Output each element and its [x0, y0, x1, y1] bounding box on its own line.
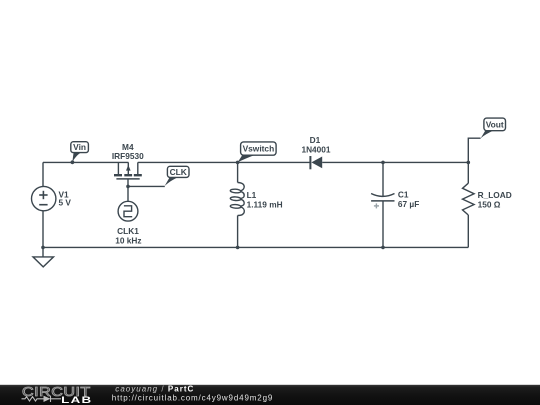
svg-text:D1: D1: [310, 135, 321, 145]
svg-text:caoyuang / PartC: caoyuang / PartC: [115, 384, 194, 393]
label L1 designator and value: [247, 190, 283, 210]
svg-text:L1: L1: [247, 190, 257, 200]
svg-text:5 V: 5 V: [59, 198, 72, 208]
junction L1 bottom: [236, 246, 240, 250]
wire L1 bottom lead: [237, 216, 239, 248]
svg-text:IRF9530: IRF9530: [112, 151, 144, 161]
svg-text:10 kHz: 10 kHz: [115, 236, 141, 246]
wire V1 top lead: [42, 162, 44, 186]
diode D1: [310, 156, 322, 169]
capacitor C1 (polarized): [371, 194, 394, 201]
node flag CLK: [165, 166, 189, 186]
label R_LOAD designator and value: [478, 190, 512, 209]
wire top-right (diode anode to R_LOAD top): [322, 161, 468, 163]
voltage source V1: [32, 186, 56, 210]
label M4 designator and value: [112, 142, 144, 161]
junction Vout node: [467, 161, 471, 165]
node flag Vout: [481, 118, 506, 138]
ground: [33, 247, 54, 267]
label C1 designator and value: [398, 190, 419, 210]
junction Vswitch node: [236, 161, 240, 165]
schematic strokes group: [43, 138, 481, 247]
wire CLK1 top lead: [127, 186, 129, 201]
wire L1 top lead: [237, 162, 239, 182]
svg-text:C1: C1: [398, 190, 409, 200]
svg-text:150 Ω: 150 Ω: [478, 199, 501, 209]
wire V1 bottom lead: [42, 211, 44, 248]
wire R_LOAD top lead: [467, 162, 469, 183]
label D1 designator and value: [301, 135, 330, 155]
svg-text:LAB: LAB: [61, 396, 92, 405]
wire top-middle (M4 source to diode cathode): [138, 161, 311, 163]
transistor M4 (PMOS IRF9530): [114, 162, 142, 186]
label CLK1 designator and value: [115, 226, 141, 246]
wire top-left (Vin rail from V1 to M4 drain): [43, 161, 128, 163]
label V1 value: [59, 190, 72, 208]
svg-text:1N4001: 1N4001: [301, 145, 330, 155]
clock source CLK1: [118, 201, 138, 221]
wire C1 bottom lead: [382, 201, 384, 247]
wire C1 top lead: [382, 162, 384, 196]
wire Vout stub: [468, 138, 480, 162]
svg-text:CLK: CLK: [170, 167, 187, 177]
svg-text:CLK1: CLK1: [117, 226, 139, 236]
junction C1 top: [381, 161, 385, 165]
label C1 polarity plus: [374, 203, 379, 208]
svg-text:Vin: Vin: [73, 142, 86, 152]
svg-text:67 µF: 67 µF: [398, 199, 419, 209]
logo squiggle resistor and diode: [22, 396, 62, 402]
junction C1 bottom: [381, 246, 385, 250]
junction gate node: [126, 185, 130, 189]
wire CLK branch (gate junction to CLK flag): [128, 185, 165, 187]
svg-text:Vswitch: Vswitch: [243, 144, 275, 154]
node flag Vswitch: [238, 142, 276, 162]
wire R_LOAD bottom lead: [467, 215, 469, 247]
junction dot V1 bottom: [41, 246, 45, 250]
node flag Vin: [71, 142, 89, 165]
inductor L1: [230, 183, 244, 216]
footer banner: [0, 384, 540, 405]
resistor R_LOAD: [463, 183, 475, 215]
svg-text:http://circuitlab.com/c4y9w9d4: http://circuitlab.com/c4y9w9d49m2g9: [112, 393, 273, 402]
wire bottom ground rail: [43, 246, 468, 248]
svg-text:1.119 mH: 1.119 mH: [247, 199, 283, 209]
svg-text:Vout: Vout: [486, 120, 504, 130]
